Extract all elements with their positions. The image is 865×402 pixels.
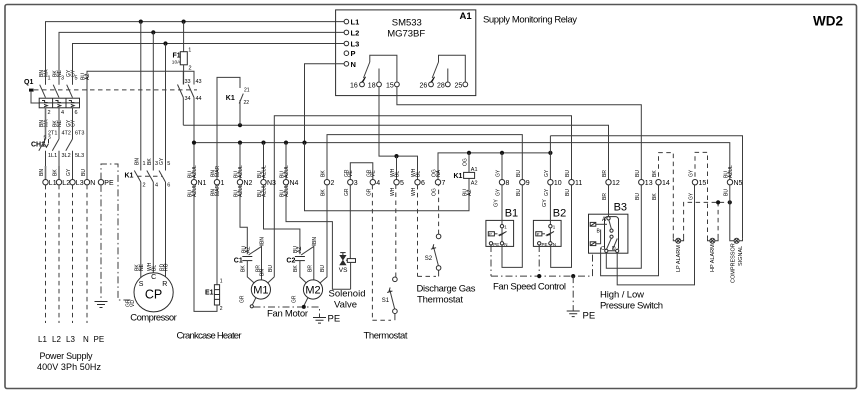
- terminal 14: [656, 180, 661, 185]
- svg-text:L2: L2: [351, 28, 360, 37]
- svg-text:1: 1: [220, 279, 223, 285]
- CH1 mech symbol: [44, 139, 48, 147]
- svg-text:N4: N4: [290, 180, 299, 187]
- wire supply N dashed: [86, 185, 88, 323]
- svg-text:BN: BN: [260, 237, 266, 244]
- svg-text:MAR: MAR: [215, 185, 221, 197]
- node neutral A1 branch: [302, 141, 306, 145]
- wire B3 sensor to terminal 14: [601, 185, 659, 276]
- svg-text:A: A: [602, 217, 606, 223]
- terminal 12: [606, 180, 611, 185]
- svg-text:25: 25: [455, 82, 463, 89]
- svg-text:GY: GY: [544, 169, 550, 177]
- svg-text:MG73BF: MG73BF: [387, 29, 425, 40]
- lamp LP alarm dashed loop: [659, 153, 730, 272]
- wire PE drop: [572, 276, 574, 311]
- wire C1 aux diagonal: [249, 246, 262, 280]
- wire stub to terminal L2: [58, 166, 60, 180]
- svg-text:3: 3: [155, 161, 158, 167]
- ground supply PE: [95, 302, 108, 308]
- thermostat S2 discharge gas: [418, 185, 441, 277]
- svg-text:44: 44: [196, 96, 202, 102]
- wire control live Q1-34 to K1-22 to terminal 12: [183, 125, 608, 179]
- svg-text:11: 11: [575, 180, 582, 187]
- svg-text:L1: L1: [38, 335, 47, 344]
- svg-text:AZ: AZ: [297, 247, 303, 253]
- svg-text:22: 22: [244, 100, 250, 106]
- terminal N2: [237, 180, 242, 185]
- terminal 2: [324, 180, 329, 185]
- svg-text:N: N: [553, 242, 556, 247]
- Q1 pole2: [53, 66, 64, 98]
- svg-text:HP ALARM: HP ALARM: [710, 244, 716, 272]
- svg-text:NE: NE: [57, 119, 63, 127]
- svg-text:N3: N3: [267, 180, 276, 187]
- wire terminal 10 riser up: [549, 136, 551, 180]
- svg-text:Solenoid: Solenoid: [329, 289, 366, 300]
- label wire colours terminal row: [188, 165, 734, 200]
- terminal N4: [283, 180, 288, 185]
- wire neutral drop N4: [285, 143, 287, 180]
- svg-text:VS: VS: [339, 267, 348, 274]
- svg-text:Fan Motor: Fan Motor: [267, 309, 308, 320]
- svg-text:BR: BR: [602, 170, 608, 177]
- svg-text:BN: BN: [312, 237, 318, 244]
- svg-text:N: N: [351, 60, 356, 69]
- wire L1 bus: [46, 22, 345, 66]
- svg-text:Compressor: Compressor: [130, 313, 177, 324]
- svg-text:OG: OG: [432, 188, 438, 196]
- motor compressor CP: [126, 262, 174, 312]
- wire N1 riser: [193, 143, 195, 180]
- controller B2 fan speed: [533, 185, 566, 247]
- svg-text:CP: CP: [145, 288, 162, 302]
- coil K1: [454, 153, 478, 196]
- wire fan PE rail dash-dot: [250, 298, 319, 318]
- node PE drop junction: [571, 274, 575, 278]
- terminal 7: [435, 180, 440, 185]
- B3 internal contacts: [609, 220, 612, 229]
- wire bridge terminals 3 and 4: [350, 163, 373, 180]
- node terminal 10 junction: [548, 151, 552, 155]
- svg-text:NA: NA: [436, 169, 442, 177]
- svg-text:BR: BR: [602, 193, 608, 200]
- svg-text:BK: BK: [293, 265, 299, 272]
- wire Q1 to CH1 pole2: [58, 108, 60, 139]
- svg-text:7: 7: [442, 180, 446, 187]
- capacitor C2: [286, 257, 305, 265]
- B3 pressure sensor HP: [590, 222, 596, 226]
- wire N3 to C2: [264, 185, 300, 254]
- node neutral N2: [238, 141, 242, 145]
- node HP neutral junction: [716, 200, 720, 204]
- svg-text:Fan Speed Control: Fan Speed Control: [493, 282, 566, 293]
- terminal N5: [727, 180, 732, 185]
- svg-text:1L1: 1L1: [48, 153, 57, 159]
- svg-text:C: C: [151, 274, 156, 281]
- svg-text:GY: GY: [494, 199, 500, 207]
- svg-text:RO: RO: [164, 263, 170, 271]
- svg-text:BL: BL: [415, 171, 421, 177]
- svg-text:BU: BU: [320, 265, 326, 272]
- thermostat S1: [372, 185, 397, 320]
- wire C1 to M1: [247, 261, 254, 284]
- svg-text:BN: BN: [39, 169, 45, 176]
- svg-text:L3: L3: [66, 335, 75, 344]
- svg-text:15: 15: [386, 82, 394, 89]
- node neutral N1: [192, 141, 196, 145]
- breaker Q1: [24, 66, 197, 176]
- node terminal 8 junction: [500, 151, 504, 155]
- svg-text:1: 1: [188, 48, 191, 54]
- svg-text:N2: N2: [244, 180, 253, 187]
- wire stubs to supply terminals: [45, 166, 47, 180]
- wire stub to terminal L3: [72, 166, 74, 180]
- node K1 coil junction: [467, 151, 471, 155]
- svg-text:AZUL: AZUL: [284, 184, 290, 197]
- svg-text:26: 26: [420, 82, 428, 89]
- svg-text:8: 8: [506, 180, 510, 187]
- wire L2 bus: [59, 32, 344, 66]
- wire K1 to compressor C: [152, 182, 154, 273]
- svg-text:BL: BL: [151, 265, 157, 271]
- A1 input P: [344, 51, 349, 56]
- svg-text:PE: PE: [94, 335, 105, 344]
- wire N4 to VS coil: [286, 185, 351, 289]
- wire BU into M1: [267, 277, 274, 284]
- svg-text:BN: BN: [134, 158, 140, 165]
- contactor K1 main contacts: [125, 161, 171, 189]
- svg-text:Discharge Gas: Discharge Gas: [417, 284, 476, 295]
- svg-text:Power Supply: Power Supply: [40, 351, 94, 361]
- wire B1 PE dash-dot: [490, 245, 492, 276]
- svg-text:C2: C2: [286, 258, 295, 265]
- svg-text:N5: N5: [734, 180, 743, 187]
- svg-text:AZUL: AZUL: [261, 184, 267, 197]
- ground fan PE: [313, 318, 326, 324]
- node L1-K1 junction: [139, 20, 143, 24]
- svg-text:NE: NE: [139, 263, 145, 271]
- A1 switch 2 terminals 26 28 25: [420, 55, 468, 89]
- svg-text:BK: BK: [652, 193, 658, 200]
- Q1 pole3: [67, 66, 78, 98]
- wire terminal 8 riser: [501, 153, 503, 180]
- svg-text:N1: N1: [198, 180, 207, 187]
- svg-text:BU: BU: [565, 170, 571, 177]
- svg-text:Supply Monitoring Relay: Supply Monitoring Relay: [483, 15, 577, 26]
- svg-text:BK: BK: [321, 189, 327, 196]
- controller B1 fan speed: [486, 185, 518, 247]
- svg-text:GY: GY: [542, 199, 548, 207]
- svg-text:5: 5: [400, 180, 404, 187]
- svg-text:5L3: 5L3: [75, 153, 84, 159]
- svg-text:AZUL: AZUL: [192, 184, 198, 197]
- B3 pressure sensor LP: [590, 242, 596, 246]
- node terminal5 riser junction: [394, 154, 398, 158]
- svg-text:GR: GR: [240, 295, 246, 303]
- wire Q1 to CH1 pole1: [45, 108, 47, 139]
- Q1 mech square: [29, 89, 34, 92]
- terminal 1: [214, 180, 219, 185]
- svg-text:13: 13: [645, 180, 653, 187]
- solenoid valve VS: [339, 185, 356, 289]
- svg-text:M1: M1: [253, 285, 268, 297]
- motor fan M2: [292, 237, 327, 303]
- svg-text:AZUL: AZUL: [238, 165, 244, 178]
- svg-text:2: 2: [220, 306, 223, 312]
- wire C2 to M2: [300, 261, 307, 284]
- svg-text:BR: BR: [308, 265, 314, 272]
- node L1-F1 junction: [182, 20, 186, 24]
- svg-text:18: 18: [368, 82, 376, 89]
- svg-text:PE: PE: [542, 242, 548, 247]
- wire neutral riser N terminal to Q1 aux 43: [87, 71, 194, 179]
- wire A1-15 output to terminal 13: [397, 87, 641, 180]
- svg-text:GR: GR: [292, 295, 298, 303]
- terminal 13: [639, 180, 644, 185]
- wire neutral drop N2: [239, 143, 241, 180]
- svg-text:AZUL: AZUL: [284, 165, 290, 178]
- svg-text:A1: A1: [471, 167, 478, 173]
- svg-text:L1: L1: [351, 18, 360, 27]
- svg-text:P: P: [537, 232, 540, 237]
- wire neutral branch to K1 coil A2: [305, 143, 470, 211]
- svg-text:PE: PE: [583, 311, 596, 322]
- svg-text:3: 3: [354, 180, 358, 187]
- svg-text:AZUL: AZUL: [238, 184, 244, 197]
- node N5 neutral junction: [728, 200, 732, 204]
- svg-text:BU: BU: [635, 170, 641, 177]
- A1 switch 1 terminals 16 18 15: [350, 55, 399, 89]
- wire K1 pole2 drop: [152, 32, 154, 170]
- svg-text:SIGNAL: SIGNAL: [738, 246, 744, 266]
- svg-text:LP ALARM: LP ALARM: [676, 245, 682, 272]
- svg-text:GY: GY: [689, 192, 695, 200]
- A1 input N: [344, 62, 349, 67]
- svg-text:L2: L2: [52, 335, 61, 344]
- svg-text:GR: GR: [366, 188, 372, 196]
- B3 input A: [608, 185, 610, 216]
- wire A1-18 output to terminals 5 and 6: [379, 87, 418, 180]
- contactor CH1: [31, 131, 84, 167]
- svg-text:Thermostat: Thermostat: [417, 295, 463, 306]
- svg-text:BK: BK: [147, 158, 153, 165]
- svg-text:P: P: [351, 49, 356, 58]
- lamp HP alarm dashed loop: [695, 152, 718, 272]
- svg-text:BU: BU: [635, 193, 641, 200]
- svg-text:SM533: SM533: [392, 18, 422, 29]
- heater E1 crankcase: [205, 185, 223, 312]
- svg-text:PE: PE: [328, 314, 341, 325]
- wire terminal 2 into M2: [320, 185, 327, 284]
- wire K1 to compressor S: [140, 182, 142, 278]
- svg-text:12: 12: [612, 180, 620, 187]
- terminal 11: [569, 180, 574, 185]
- node neutral N4: [284, 141, 288, 145]
- svg-text:400V 3Ph 50Hz: 400V 3Ph 50Hz: [37, 362, 102, 372]
- svg-text:Thermostat: Thermostat: [364, 331, 408, 342]
- lamp compressor signal: [730, 185, 744, 283]
- svg-text:BU: BU: [565, 189, 571, 196]
- svg-text:S2: S2: [425, 256, 433, 262]
- svg-text:5: 5: [167, 161, 170, 167]
- svg-text:GY: GY: [544, 188, 550, 196]
- svg-text:2: 2: [143, 183, 146, 189]
- A1 input L1: [344, 19, 349, 24]
- svg-text:6T3: 6T3: [75, 131, 84, 137]
- terminal 3: [348, 180, 353, 185]
- svg-text:GY: GY: [159, 157, 165, 165]
- wire PE rail dash-dot B1 B2 B3: [491, 254, 593, 276]
- wire Q1 to CH1 pole3: [72, 108, 74, 139]
- terminal N3: [261, 180, 266, 185]
- wire PE dash-dot to compressor: [101, 164, 134, 300]
- svg-text:9: 9: [526, 180, 530, 187]
- K1 pole 3: [159, 161, 170, 189]
- svg-text:MAR: MAR: [215, 166, 221, 178]
- wire K1 to compressor R: [165, 182, 167, 279]
- svg-text:GY: GY: [66, 168, 72, 176]
- K1 pole 2: [147, 161, 158, 189]
- wire terminal 2 line to terminal 9: [327, 135, 522, 180]
- breaker Q1 aux contact 43-44: [188, 79, 201, 180]
- wire A1 N input: [305, 64, 345, 143]
- K1 pole 1: [134, 161, 145, 189]
- svg-text:B3: B3: [614, 202, 627, 214]
- wire fan line terminal 11 to M1: [274, 116, 571, 277]
- node L3-K1 junction: [163, 41, 167, 45]
- wire N2 to C1: [240, 185, 247, 254]
- svg-text:34: 34: [185, 96, 191, 102]
- svg-text:High / Low: High / Low: [600, 290, 644, 301]
- svg-text:2T1: 2T1: [48, 131, 57, 137]
- svg-text:3: 3: [61, 76, 64, 82]
- svg-text:AZ: AZ: [467, 190, 473, 196]
- terminal L2: [56, 180, 61, 185]
- svg-text:M2: M2: [305, 285, 320, 297]
- wire B1 output to terminal 9: [502, 185, 522, 268]
- svg-text:15: 15: [699, 180, 707, 187]
- CH1 pole1: [39, 131, 58, 167]
- svg-text:33: 33: [185, 79, 191, 85]
- wire K1 pole3 drop: [165, 44, 167, 171]
- A1 input L3: [344, 41, 349, 46]
- wire C2 aux diagonal: [301, 246, 314, 280]
- svg-text:AZUL: AZUL: [261, 165, 267, 178]
- svg-text:B1: B1: [505, 208, 518, 220]
- svg-text:2: 2: [331, 180, 335, 187]
- Q1 mech dashed link: [34, 89, 197, 91]
- svg-text:10: 10: [554, 180, 562, 187]
- svg-text:GY: GY: [70, 119, 76, 127]
- terminal L1: [43, 180, 48, 185]
- svg-text:AZUL: AZUL: [728, 165, 734, 178]
- svg-text:6: 6: [167, 183, 170, 189]
- terminal N: [84, 180, 89, 185]
- svg-text:28: 28: [437, 82, 445, 89]
- svg-text:BK: BK: [321, 170, 327, 177]
- wire neutral bus: [194, 143, 730, 180]
- terminal 15: [692, 180, 697, 185]
- svg-text:Valve: Valve: [334, 300, 357, 311]
- CH1 pole3: [66, 131, 85, 167]
- contactor K1 aux contact 21-22: [217, 77, 250, 179]
- svg-text:Pressure Switch: Pressure Switch: [600, 301, 663, 312]
- wire live line to compressor signal lamp: [550, 136, 742, 239]
- svg-text:K1: K1: [454, 173, 463, 180]
- wire supply PE dash-dot: [100, 185, 102, 301]
- wire supply L1 dashed: [45, 185, 47, 323]
- svg-text:3L2: 3L2: [62, 153, 71, 159]
- svg-text:1: 1: [48, 76, 51, 82]
- svg-text:4: 4: [155, 183, 158, 189]
- svg-text:P: P: [489, 232, 492, 237]
- wire B2 PE dash-dot: [538, 245, 540, 276]
- Q1 overload box: [39, 98, 79, 108]
- svg-text:L3: L3: [351, 40, 360, 49]
- svg-text:BU: BU: [81, 169, 87, 176]
- terminal 9: [520, 180, 525, 185]
- svg-text:K1: K1: [226, 95, 235, 102]
- svg-text:BK: BK: [53, 169, 59, 176]
- svg-text:6: 6: [75, 110, 78, 116]
- Q1 mech left bracket: [31, 92, 39, 103]
- wire M2 aux tick: [312, 244, 316, 246]
- wire E1 loop to N1: [194, 185, 217, 312]
- svg-text:BU: BU: [516, 189, 522, 196]
- svg-text:GY: GY: [689, 169, 695, 177]
- wire M1 aux tick: [260, 244, 264, 246]
- svg-text:N: N: [504, 242, 507, 247]
- terminal 6: [415, 180, 420, 185]
- wire live S2 line: terminal 7 to K1 coil and B1 B2: [438, 153, 550, 180]
- svg-text:5: 5: [75, 76, 78, 82]
- terminal N1: [191, 180, 196, 185]
- terminal PE: [98, 180, 103, 185]
- svg-text:VE: VE: [348, 170, 354, 177]
- svg-text:1: 1: [143, 161, 146, 167]
- motor fan M1: [240, 237, 275, 303]
- svg-text:4T2: 4T2: [62, 131, 71, 137]
- node B2 PE junction: [537, 274, 541, 278]
- svg-text:N: N: [90, 180, 95, 187]
- terminal L3: [70, 180, 75, 185]
- capacitor C1: [234, 257, 253, 265]
- wire B3 C to terminal 13: [606, 185, 641, 268]
- svg-text:14: 14: [662, 180, 670, 187]
- svg-text:OG: OG: [463, 158, 469, 166]
- svg-text:Crankcase Heater: Crankcase Heater: [177, 331, 242, 342]
- svg-text:43: 43: [196, 79, 202, 85]
- svg-text:A1: A1: [460, 11, 473, 22]
- svg-text:BU: BU: [516, 170, 522, 177]
- svg-text:GR: GR: [344, 188, 350, 196]
- svg-text:E1: E1: [205, 290, 214, 297]
- svg-text:L3: L3: [76, 180, 84, 187]
- wire terminal 5 riser: [396, 156, 398, 179]
- svg-text:C1: C1: [234, 258, 243, 265]
- svg-text:A2: A2: [471, 181, 478, 187]
- svg-text:Q1: Q1: [24, 79, 33, 86]
- wire B3 D to terminal 15: [617, 185, 694, 285]
- CH1 pole2: [52, 131, 71, 167]
- svg-text:BU: BU: [724, 189, 730, 196]
- svg-text:S1: S1: [382, 298, 390, 304]
- terminal 4: [370, 180, 375, 185]
- svg-text:PE: PE: [493, 242, 499, 247]
- svg-text:BN: BN: [259, 269, 265, 276]
- svg-text:N: N: [83, 335, 89, 344]
